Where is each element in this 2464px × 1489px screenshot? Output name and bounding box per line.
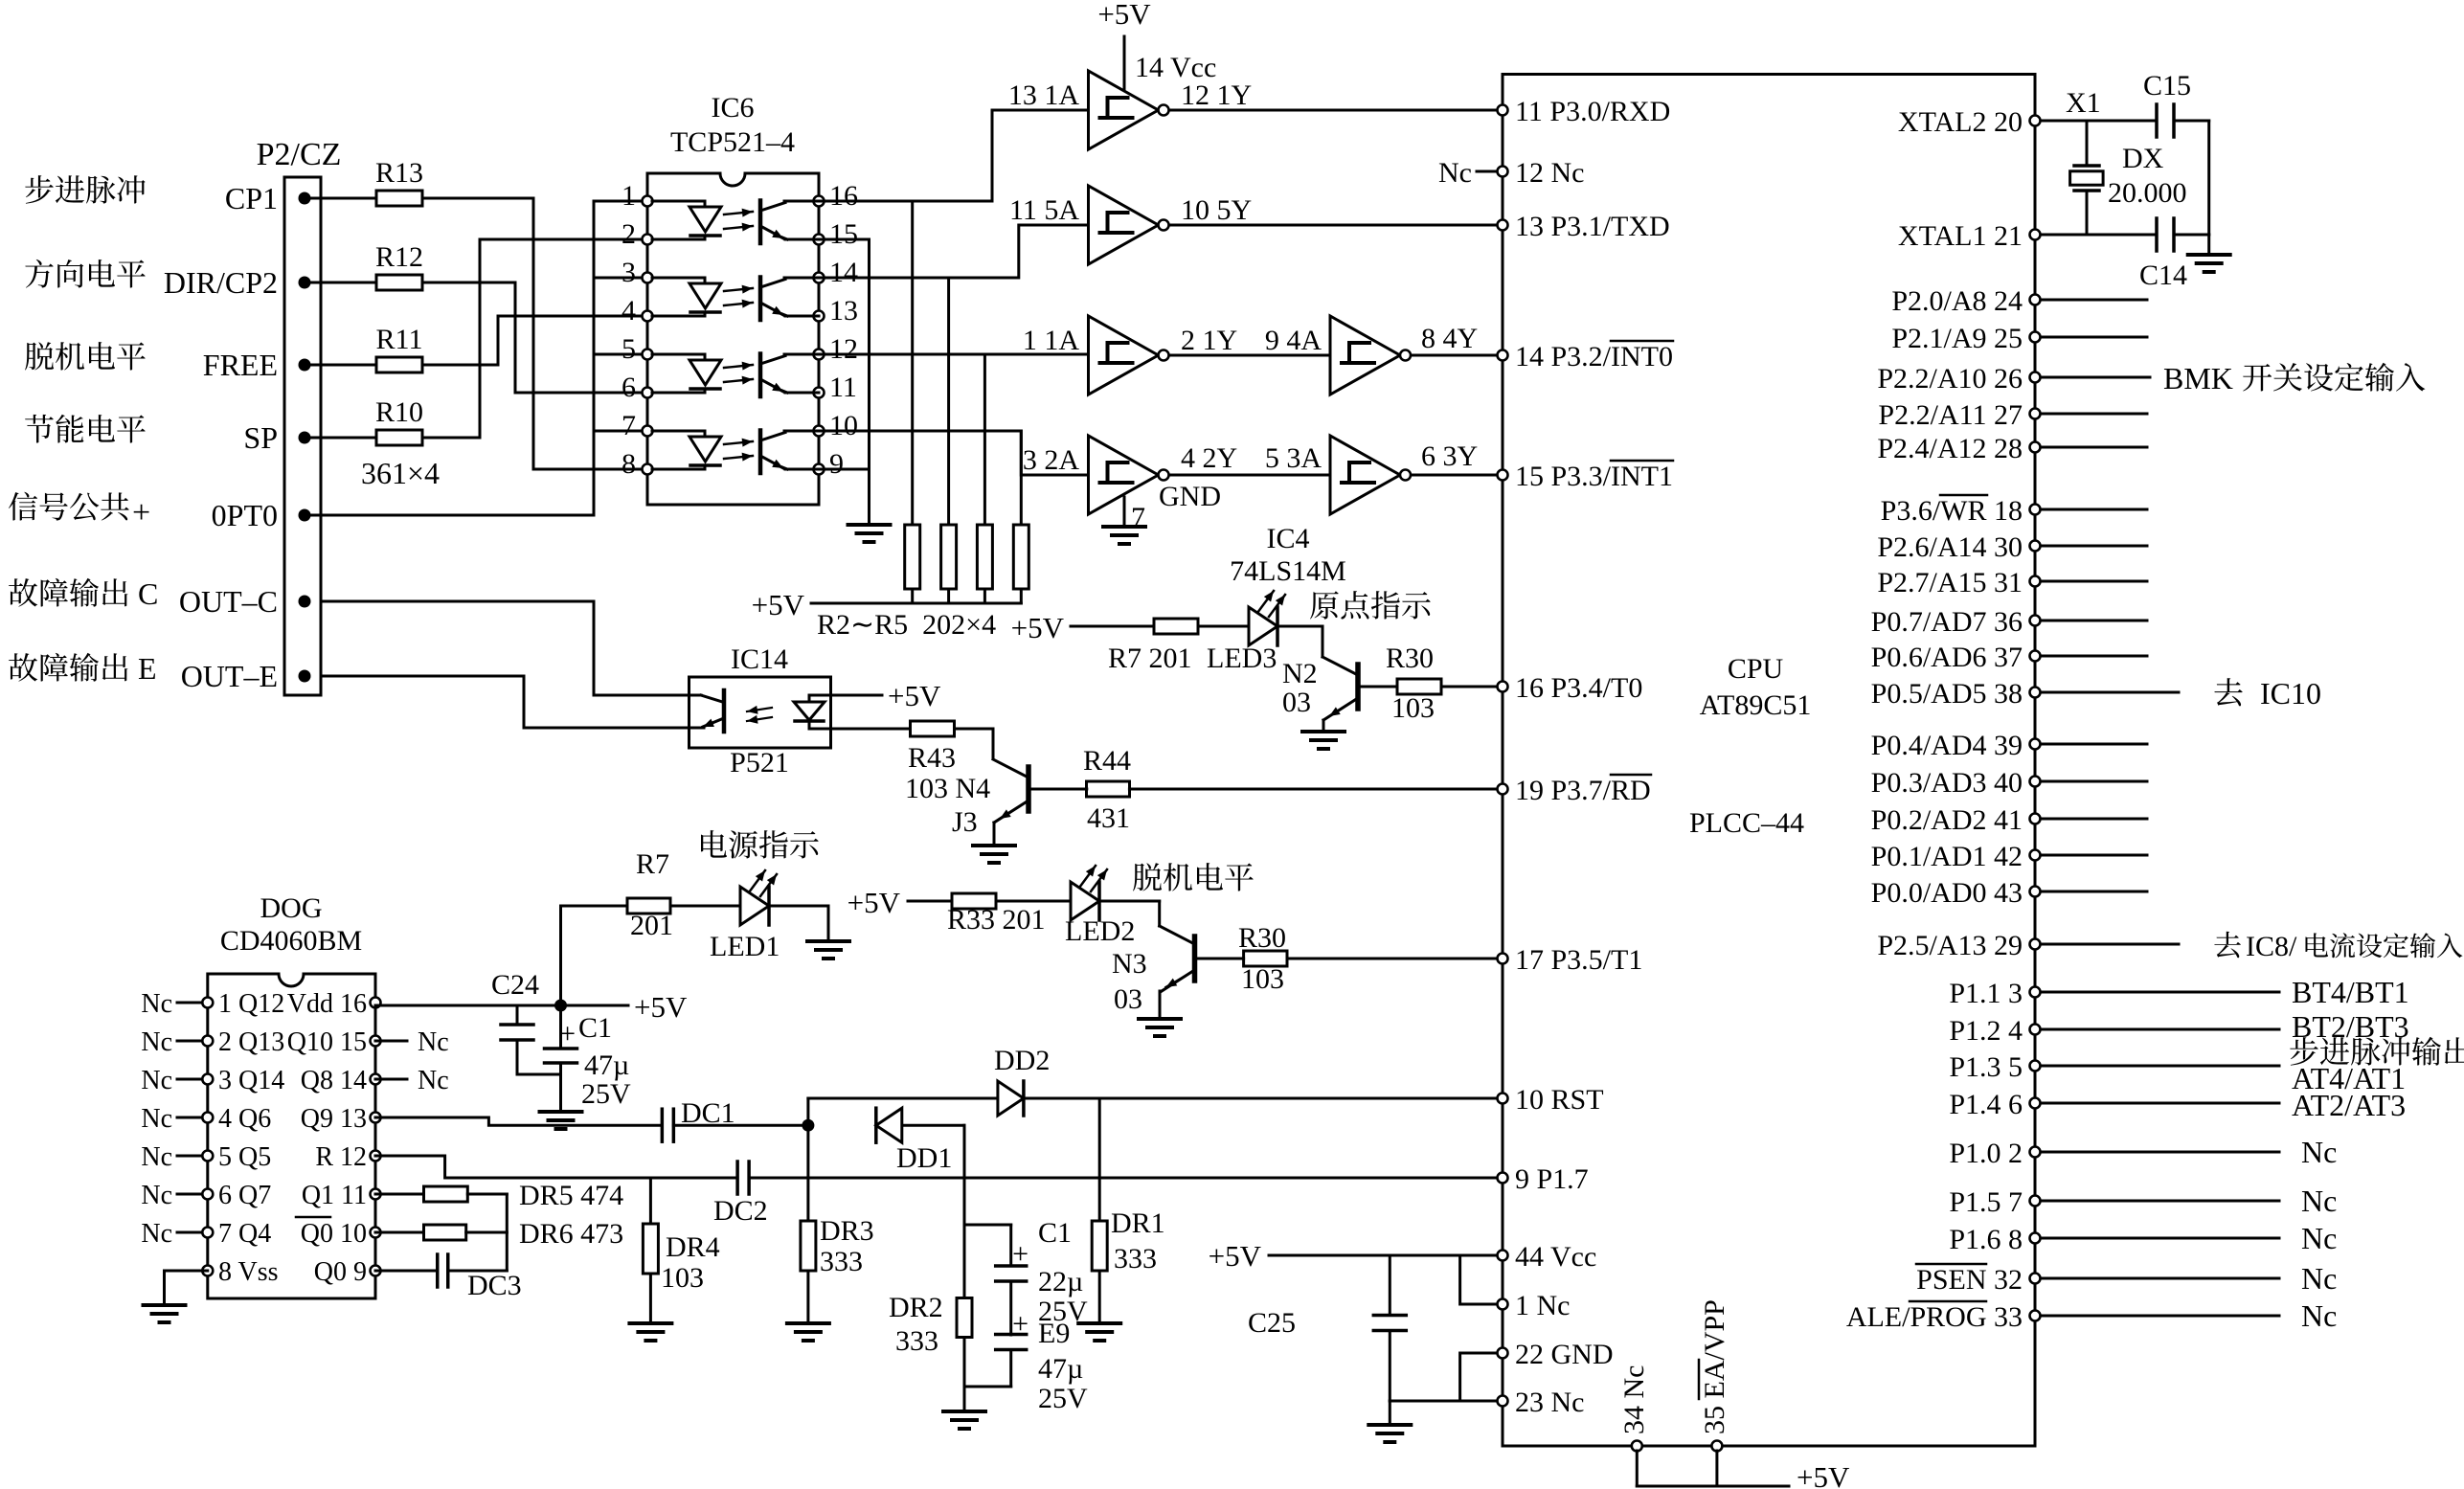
svg-text:SP: SP	[243, 420, 278, 455]
wire C25 gnd	[1389, 1401, 1391, 1423]
wire SP-R10	[305, 437, 376, 440]
svg-text:+: +	[132, 495, 150, 530]
label J3	[952, 806, 978, 838]
CPU pin 19 P3.7/RD	[1498, 775, 1652, 806]
wire DR2 gnd	[963, 1338, 966, 1410]
svg-text:Nc: Nc	[2301, 1261, 2337, 1296]
resistor R3	[941, 278, 957, 603]
svg-text:103: 103	[661, 1262, 704, 1294]
DOG pin 8 8 Vss	[202, 1257, 278, 1287]
ground buffer	[1103, 527, 1145, 544]
label R7 201	[1108, 643, 1192, 674]
stub wire row 394 BMK	[2041, 376, 2150, 379]
IC6 pin 5	[622, 333, 653, 365]
svg-text:P0.1/AD1 42: P0.1/AD1 42	[1871, 841, 2023, 872]
wire to pin22 GND	[1460, 1353, 1503, 1401]
label Nc row 1293	[2301, 1221, 2337, 1255]
svg-text:25V: 25V	[581, 1078, 631, 1110]
DOG Nc stub pin 2	[141, 1027, 202, 1057]
ground DOG Vss	[144, 1305, 186, 1322]
wire +5V rail to R7	[561, 906, 628, 1005]
wire node up to DD2 row	[808, 1098, 998, 1125]
svg-text:10: 10	[829, 410, 858, 441]
svg-text:103 N4: 103 N4	[905, 773, 990, 804]
svg-text:5: 5	[622, 333, 636, 365]
wire IC14 cathode to R43	[831, 728, 911, 731]
svg-text:12 1Y: 12 1Y	[1181, 79, 1252, 111]
IC6 pin 8	[622, 448, 653, 480]
svg-text:FREE: FREE	[203, 348, 278, 382]
label 信号公共+	[9, 492, 150, 530]
svg-text:2 1Y: 2 1Y	[1181, 325, 1237, 356]
wire node to DR3	[806, 1125, 809, 1221]
ground C25	[1368, 1425, 1411, 1442]
svg-text:13 1A: 13 1A	[1008, 79, 1080, 111]
svg-text:4 2Y: 4 2Y	[1181, 442, 1237, 474]
svg-text:DOG: DOG	[260, 892, 323, 924]
IC6 pin 4	[622, 295, 653, 327]
transistor N3 (collector pre-drawn)	[1161, 936, 1195, 992]
label BMK 开关设定输入	[2163, 361, 2425, 395]
CPU pin P1.3 5	[1949, 1051, 2040, 1083]
transistor N2	[1322, 657, 1358, 720]
label 11 5A	[1009, 194, 1079, 226]
crystal DX 20.000	[2070, 121, 2104, 235]
wire OPT0 common to IC6 anode pins 1,3,5,7	[305, 201, 647, 515]
stub wire row 986 IC8	[2041, 943, 2179, 946]
pin 7 buffer gnd	[1124, 497, 1145, 533]
optocoupler IC14 P521 body	[689, 643, 831, 778]
svg-text:P1.6 8: P1.6 8	[1949, 1224, 2023, 1255]
Nc stub Q10 15	[375, 1027, 449, 1057]
svg-text:5 3A: 5 3A	[1265, 442, 1322, 474]
capacitor C14	[2139, 218, 2187, 291]
svg-text:TCP521–4: TCP521–4	[670, 126, 795, 158]
svg-text:P2.2/A11 27: P2.2/A11 27	[1878, 399, 2023, 431]
wire 3Y to pin15	[1413, 474, 1503, 477]
IC6 opto transistor 1	[760, 201, 819, 244]
wire R44 to pin19	[1129, 788, 1503, 791]
DOG pin R 12	[315, 1142, 380, 1172]
stub wire row 467	[2041, 446, 2147, 449]
DOG Nc stub pin 3	[141, 1066, 202, 1095]
IC6 opto LED 2	[652, 278, 721, 316]
wire DR4 gnd	[649, 1274, 652, 1321]
svg-text:CD4060BM: CD4060BM	[220, 925, 362, 957]
resistor R30 N3	[1244, 951, 1287, 966]
label Nc row 1335	[2301, 1261, 2337, 1296]
svg-text:9: 9	[829, 448, 844, 480]
svg-text:16: 16	[829, 180, 858, 212]
capacitor DC2	[713, 1162, 768, 1227]
stub wire row 1203	[2041, 1151, 2279, 1154]
capacitor C1 22u electrolytic	[996, 1238, 1029, 1281]
svg-text:BT4/BT1: BT4/BT1	[2292, 975, 2409, 1009]
svg-text:8: 8	[622, 448, 636, 480]
svg-text:DR4: DR4	[666, 1231, 720, 1263]
svg-text:361×4: 361×4	[361, 456, 440, 490]
IC6 opto arrows 4	[724, 439, 753, 462]
CPU pin 12 Nc	[1498, 157, 1585, 189]
CPU pin PSEN 32	[1916, 1264, 2041, 1296]
svg-text:GND: GND	[1159, 481, 1221, 512]
label 47u	[584, 1049, 629, 1081]
wire R30 to pin16	[1441, 686, 1503, 688]
svg-text:03: 03	[1114, 983, 1142, 1015]
resistor DR6	[424, 1225, 508, 1240]
svg-text:P1.3 5: P1.3 5	[1949, 1051, 2023, 1083]
svg-text:X1: X1	[2066, 87, 2101, 119]
svg-text:8 4Y: 8 4Y	[1421, 323, 1478, 354]
CPU pin P0.1/AD1 42	[1871, 841, 2041, 872]
stub wire row 723 IC10	[2041, 691, 2179, 694]
svg-text:+5V: +5V	[1097, 0, 1151, 31]
resistor R5	[1013, 431, 1029, 603]
label 47u E9	[1038, 1353, 1083, 1385]
node OUT-C	[179, 584, 311, 619]
svg-text:+: +	[559, 1018, 576, 1049]
wire N2 emitter gnd	[1322, 720, 1325, 730]
IC6 opto LED 4	[652, 431, 721, 469]
label R30 N3	[1238, 922, 1286, 954]
svg-text:+5V: +5V	[1209, 1239, 1262, 1273]
svg-text:15 P3.3/INT1: 15 P3.3/INT1	[1515, 461, 1673, 492]
label BT2/BT3	[2292, 1009, 2409, 1044]
svg-text:03: 03	[1282, 687, 1311, 718]
svg-text:LED3: LED3	[1207, 643, 1277, 674]
svg-text:R11: R11	[376, 324, 423, 355]
label R30 N2	[1386, 643, 1434, 674]
label 步进脉冲	[25, 175, 145, 204]
wire OUT-C to IC14	[321, 601, 689, 695]
svg-text:1 Q12: 1 Q12	[218, 989, 284, 1019]
svg-text:P0.7/AD7 36: P0.7/AD7 36	[1871, 606, 2023, 638]
stub wire row 1075	[2041, 1028, 2279, 1031]
stub wire row 648	[2041, 620, 2147, 622]
capacitor C15	[2143, 70, 2191, 137]
wire 2Y-3A	[1171, 474, 1330, 477]
label R2~R5 202x4	[817, 609, 996, 641]
svg-text:34 Nc: 34 Nc	[1618, 1365, 1650, 1434]
node +5V/C1 junction	[554, 1000, 567, 1012]
svg-text:ALE/PROG 33: ALE/PROG 33	[1846, 1301, 2023, 1333]
wire R12 to IC6 pin6	[422, 282, 647, 393]
svg-text:E: E	[130, 651, 157, 686]
stub wire row 816	[2041, 780, 2147, 783]
capacitor C24	[491, 969, 561, 1074]
label 去 IC10	[2214, 676, 2321, 711]
node CP1	[225, 181, 311, 215]
svg-text:P0.4/AD4 39: P0.4/AD4 39	[1871, 730, 2023, 761]
wire 5Y to pin13	[1171, 224, 1503, 227]
wire Vdd16 +5V rail	[375, 990, 688, 1024]
svg-text:+5V: +5V	[848, 886, 901, 919]
svg-text:Nc: Nc	[141, 989, 172, 1019]
DOG pin 1 1 Q12	[202, 989, 284, 1019]
label 25V C1	[581, 1078, 631, 1110]
svg-text:4: 4	[622, 295, 636, 327]
IC6 pin 2	[622, 218, 653, 250]
wire Q9 to DC1	[375, 1117, 662, 1125]
node SP	[243, 420, 310, 455]
svg-text:Nc: Nc	[2301, 1298, 2337, 1333]
stub wire row 777	[2041, 743, 2147, 746]
CPU pin P1.5 7	[1949, 1186, 2040, 1218]
CPU pin P0.4/AD4 39	[1871, 730, 2041, 761]
wire IC6 pin12 to buffer 1A(row3) input	[819, 353, 1089, 356]
svg-text:CPU: CPU	[1728, 653, 1784, 685]
schmitt inverter 5A/5Y	[1089, 186, 1169, 264]
wire R43 to N4 collector	[955, 729, 994, 758]
svg-text:23 Nc: 23 Nc	[1515, 1387, 1584, 1418]
svg-text:BT2/BT3: BT2/BT3	[2292, 1009, 2409, 1044]
svg-text:+5V: +5V	[888, 679, 941, 712]
svg-text:431: 431	[1087, 802, 1130, 834]
resistor R33	[952, 893, 996, 909]
svg-text:Nc: Nc	[2301, 1184, 2337, 1218]
ground XTAL	[2188, 255, 2230, 272]
label C1	[578, 1012, 612, 1044]
svg-text:Nc: Nc	[2301, 1221, 2337, 1255]
resistor DR2	[957, 1298, 972, 1338]
svg-text:C1: C1	[578, 1012, 612, 1044]
resistor R43	[911, 721, 955, 736]
svg-text:Nc: Nc	[141, 1066, 172, 1095]
svg-text:4 Q6: 4 Q6	[218, 1104, 271, 1134]
svg-text:R13: R13	[375, 157, 423, 189]
stub wire row 855	[2041, 818, 2147, 821]
label N2	[1282, 658, 1318, 689]
svg-text:DR6 473: DR6 473	[519, 1218, 623, 1250]
CPU pin P1.4 6	[1949, 1089, 2040, 1120]
stub wire row 352	[2041, 336, 2147, 339]
svg-text:12 Nc: 12 Nc	[1515, 157, 1584, 189]
svg-text:C24: C24	[491, 969, 539, 1001]
DOG pin Q9 13	[301, 1104, 381, 1134]
svg-text:333: 333	[895, 1325, 938, 1357]
schmitt inverter 3A/3Y	[1330, 436, 1411, 514]
svg-text:P1.4 6: P1.4 6	[1949, 1089, 2023, 1120]
CPU pin P2.0/A8 24	[1891, 285, 2040, 317]
svg-text:AT89C51: AT89C51	[1700, 689, 1812, 721]
svg-text:25V: 25V	[1038, 1383, 1088, 1414]
label DR5 474	[519, 1180, 623, 1211]
svg-text:3 Q14: 3 Q14	[218, 1066, 284, 1095]
label 333 DR2	[895, 1325, 938, 1357]
LED LED2	[1071, 866, 1107, 920]
label Nc row 1203	[2301, 1135, 2337, 1169]
svg-text:0PT0: 0PT0	[212, 498, 278, 532]
optocoupler IC6 TCP521-4 body	[647, 92, 819, 505]
svg-text:DR5 474: DR5 474	[519, 1180, 623, 1211]
power +5V LED3	[1011, 611, 1154, 644]
label BT4/BT1	[2292, 975, 2409, 1009]
label C1 22u	[1038, 1217, 1072, 1249]
wire IC6 pin10 to buffer 2A input	[819, 431, 1089, 475]
label 361x4	[361, 456, 440, 490]
label 431	[1087, 802, 1130, 834]
label LED3	[1207, 643, 1277, 674]
node DIR/CP2	[164, 265, 311, 300]
power +5V buffer	[1097, 0, 1151, 89]
transistor N4/J3	[993, 759, 1029, 823]
IC6 opto arrows 1	[724, 209, 753, 232]
DOG Nc stub pin 7	[141, 1219, 202, 1249]
diode DD2	[994, 1045, 1050, 1116]
capacitor DC1	[662, 1097, 735, 1141]
label 13 1A	[1008, 79, 1080, 111]
svg-text:P0.5/AD5 38: P0.5/AD5 38	[1871, 678, 2023, 710]
wire C25 bottom to pin23	[1390, 1331, 1503, 1401]
svg-text:IC6: IC6	[712, 92, 755, 124]
stub wire row 432	[2041, 413, 2147, 416]
svg-text:17 P3.5/T1: 17 P3.5/T1	[1515, 944, 1642, 976]
label R33 201	[947, 904, 1046, 936]
label 脱机电平	[1133, 863, 1254, 891]
wire DIR-R12	[305, 282, 376, 284]
schmitt inverter 1A/1Y	[1089, 71, 1169, 149]
label 25V E9	[1038, 1383, 1088, 1414]
CPU pin P0.6/AD6 37	[1871, 642, 2041, 673]
svg-text:Nc: Nc	[141, 1104, 172, 1134]
label R44	[1083, 745, 1131, 777]
label E9	[1038, 1318, 1070, 1349]
svg-text:OUT–C: OUT–C	[179, 584, 278, 619]
label 电源指示	[701, 830, 819, 859]
svg-text:P2.6/A14 30: P2.6/A14 30	[1877, 531, 2023, 563]
label N3	[1112, 948, 1147, 980]
capacitor DC3	[438, 1254, 522, 1301]
wire DR5/DR6/DC3 common	[506, 1194, 509, 1271]
svg-text:47µ: 47µ	[1038, 1353, 1083, 1385]
svg-text:XTAL2 20: XTAL2 20	[1898, 106, 2023, 138]
label 1 1A	[1023, 325, 1080, 356]
IC6 pin 1	[622, 180, 653, 212]
svg-text:P1.0 2: P1.0 2	[1949, 1138, 2023, 1169]
IC DOG CD4060BM body	[208, 892, 375, 1298]
svg-text:6 Q7: 6 Q7	[218, 1181, 271, 1210]
DOG pin 5 5 Q5	[202, 1142, 271, 1172]
wire N3 emitter gnd	[1159, 991, 1162, 1017]
label DR3	[820, 1215, 874, 1247]
wire IC14 anode +5V	[831, 679, 941, 712]
stub wire row 1152	[2041, 1102, 2279, 1105]
label 故障输出C	[9, 576, 158, 611]
svg-text:Nc: Nc	[418, 1066, 449, 1095]
ground DR2	[943, 1411, 985, 1429]
DOG pin Q8 14	[301, 1066, 381, 1095]
svg-text:+: +	[1012, 1308, 1029, 1340]
svg-text:7: 7	[1131, 502, 1145, 533]
svg-text:R2∼R5 202×4: R2∼R5 202×4	[817, 609, 996, 641]
wire C1-E9	[1009, 1281, 1012, 1335]
IC6 pin 14	[814, 257, 859, 288]
resistor DR1	[1092, 1221, 1107, 1271]
svg-text:2 Q13: 2 Q13	[218, 1027, 284, 1057]
CPU pin P2.6/A14 30	[1877, 531, 2040, 563]
svg-text:44 Vcc: 44 Vcc	[1515, 1241, 1596, 1273]
wire IC6 pin14 to buffer 5A input	[819, 225, 1089, 278]
CPU pin 13 P3.1/TXD	[1498, 211, 1670, 242]
CPU pin P0.5/AD5 38	[1871, 678, 2041, 710]
wire R13 to IC6 pin8	[422, 198, 647, 469]
resistor R44	[1087, 781, 1130, 797]
wire DR4 tap	[649, 1178, 652, 1224]
DOG pin Q0 10	[296, 1217, 381, 1249]
DOG Nc stub pin 6	[141, 1181, 202, 1210]
node DD junction	[802, 1119, 814, 1132]
wire CP1-R13	[305, 197, 376, 200]
wire XTAL1 row	[2041, 234, 2157, 237]
label 103 DR4	[661, 1262, 704, 1294]
wire N4 emitter gnd	[993, 823, 996, 844]
wire Q0b to DR6	[375, 1231, 424, 1234]
resistor R2	[905, 201, 920, 603]
label 333 DR3	[820, 1246, 863, 1277]
stub wire row 607	[2041, 580, 2147, 583]
IC6 opto LED 1	[652, 201, 721, 239]
label 3 2A	[1023, 444, 1080, 476]
CPU pin 22 GND	[1498, 1339, 1614, 1370]
label 03 N2	[1282, 687, 1311, 718]
label LED1	[710, 931, 780, 962]
label 去 IC8 电流设定输入	[2214, 931, 2462, 962]
node OUT-E	[181, 659, 311, 693]
wire R30 to pin17	[1287, 958, 1503, 960]
svg-text:+5V: +5V	[634, 990, 688, 1024]
CPU pin XTAL1 21	[1898, 220, 2041, 252]
svg-text:P2.4/A12 28: P2.4/A12 28	[1877, 433, 2023, 464]
svg-text:Q0 10: Q0 10	[301, 1219, 367, 1249]
schmitt inverter 1A row3	[1089, 316, 1169, 395]
IC6 opto transistor 3	[760, 354, 819, 397]
CPU AT89C51 body	[1503, 75, 2035, 1447]
node FREE	[203, 348, 311, 382]
svg-text:14: 14	[829, 257, 858, 288]
svg-text:333: 333	[1114, 1243, 1157, 1275]
label 03 N3	[1114, 983, 1142, 1015]
svg-text:13 P3.1/TXD: 13 P3.1/TXD	[1515, 211, 1670, 242]
wire RST pulldown	[1098, 1098, 1101, 1221]
svg-text:P0.2/AD2 41: P0.2/AD2 41	[1871, 804, 2023, 836]
svg-text:13: 13	[829, 295, 858, 327]
svg-text:BMK: BMK	[2163, 361, 2233, 395]
svg-text:Q10 15: Q10 15	[287, 1027, 367, 1057]
svg-text:Q0 9: Q0 9	[314, 1257, 367, 1287]
svg-text:9 P1.7: 9 P1.7	[1515, 1163, 1589, 1195]
label DR4	[666, 1231, 720, 1263]
IC6 opto transistor 2	[760, 278, 819, 321]
wire OUT-E to IC14	[321, 676, 689, 728]
svg-text:2: 2	[622, 218, 636, 250]
CPU pin P2.1/A9 25	[1891, 323, 2040, 354]
CPU pin 12 Nc stub	[1438, 157, 1497, 189]
IC6 opto LED 3	[652, 354, 721, 393]
label 5 3A	[1265, 442, 1322, 474]
wire FREE-R11	[305, 364, 376, 367]
CPU pin P2.4/A12 28	[1877, 433, 2040, 464]
svg-text:DIR/CP2: DIR/CP2	[164, 265, 278, 300]
CPU pin P1.1 3	[1949, 978, 2040, 1009]
CPU pin 34 Nc	[1618, 1365, 1650, 1452]
svg-text:P521: P521	[730, 747, 789, 778]
connector P2/CZ	[257, 137, 342, 695]
label 6 3Y	[1421, 440, 1478, 472]
svg-text:N2: N2	[1282, 658, 1318, 689]
CPU pin P2.5/A13 29	[1877, 930, 2040, 961]
CPU pin 44 Vcc	[1498, 1241, 1597, 1273]
svg-text:103: 103	[1241, 963, 1284, 995]
